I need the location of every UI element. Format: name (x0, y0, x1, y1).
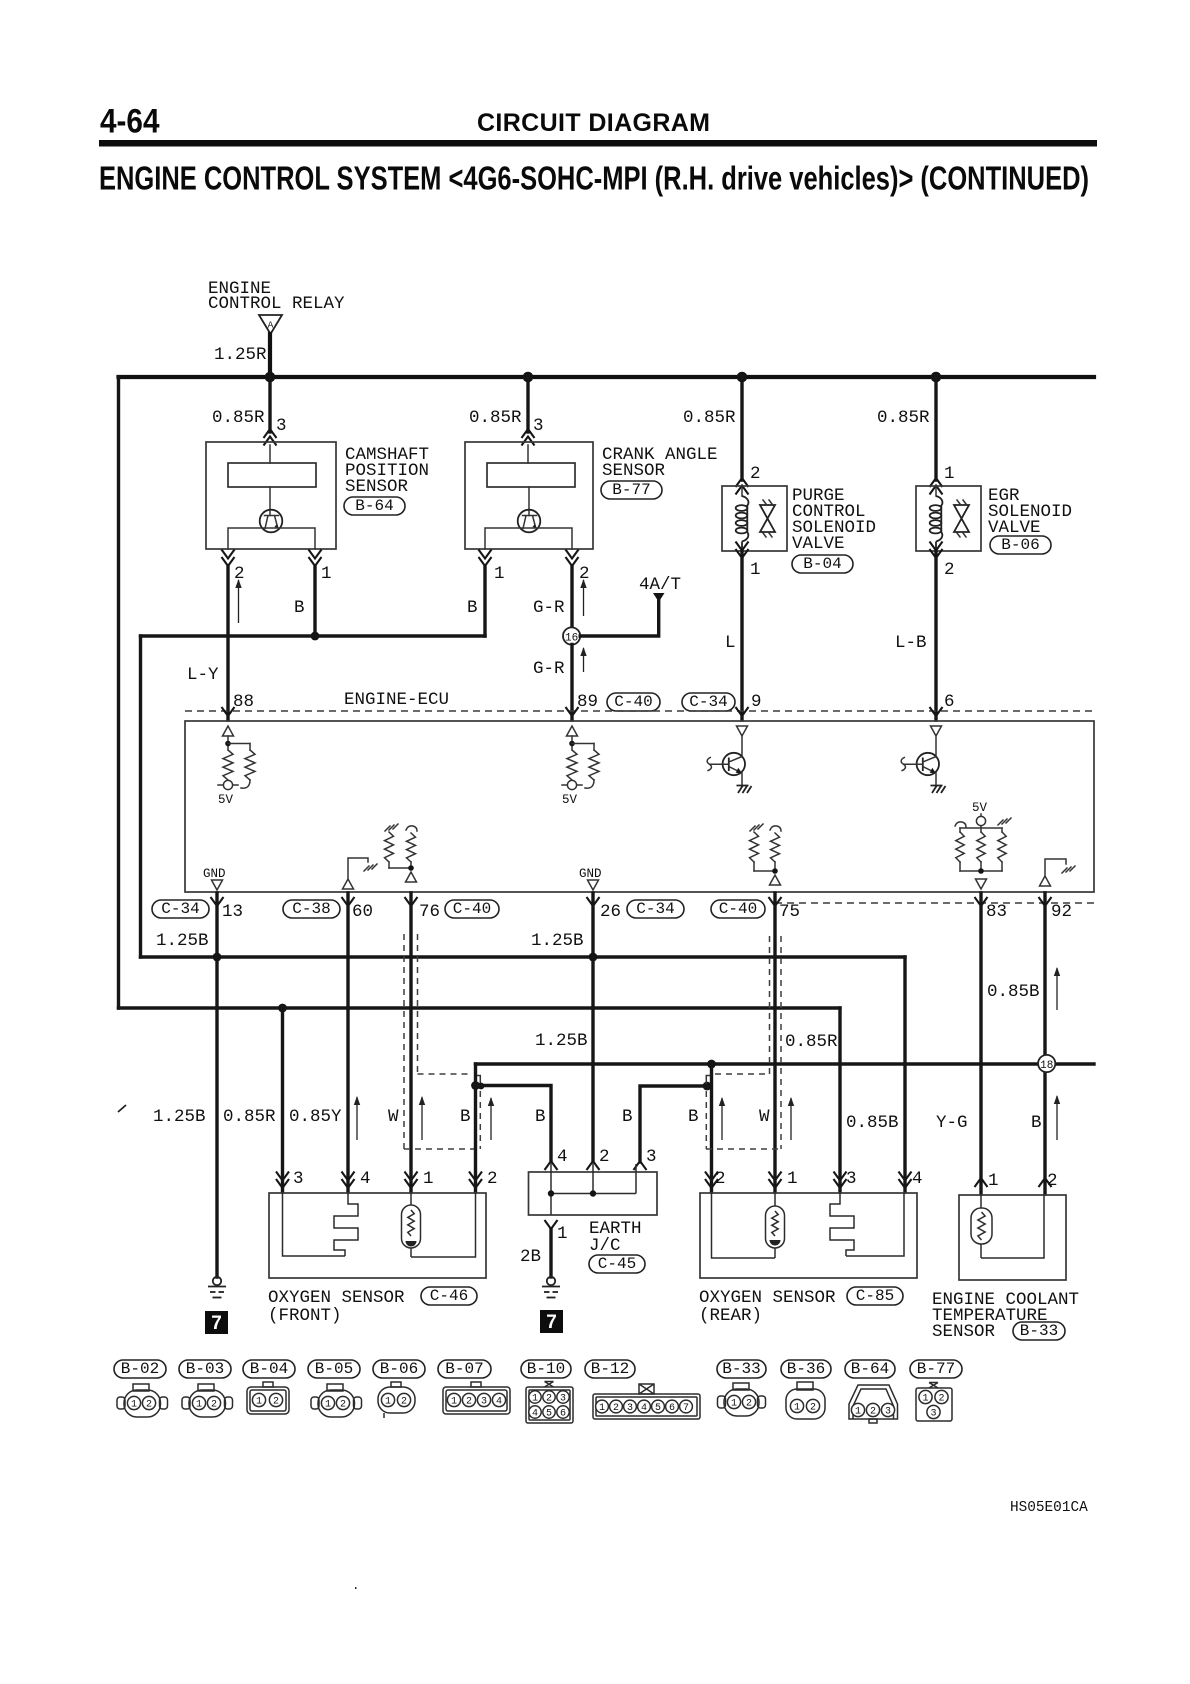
svg-text:2: 2 (944, 560, 955, 580)
earth JC box C-45 (529, 1172, 658, 1215)
connector B-77 drawing (916, 1388, 952, 1421)
ECU pin88 pull-up network (227, 736, 229, 750)
svg-text:26: 26 (600, 902, 621, 922)
transistor Q1 driver pin9 (741, 736, 743, 757)
line1 right riser to rear O2 pin4 (903, 957, 906, 1192)
svg-text:6: 6 (560, 1409, 566, 1420)
svg-text:2: 2 (487, 1169, 498, 1189)
svg-text:W: W (759, 1107, 770, 1127)
svg-text:B: B (460, 1107, 471, 1127)
rear O2 heater element (830, 1193, 854, 1256)
camshaft position sensor box B-64 (206, 442, 336, 549)
connector bubble C-46 (421, 1287, 477, 1305)
svg-text:1: 1 (787, 1169, 798, 1189)
junction dot front branch (471, 1081, 480, 1090)
ECU pin6 output marker (931, 726, 942, 736)
svg-text:3: 3 (885, 1407, 891, 1418)
EGR valve symbol (954, 505, 969, 532)
svg-text:0.85Y: 0.85Y (289, 1107, 342, 1127)
svg-text:2: 2 (211, 1400, 217, 1411)
svg-text:6: 6 (669, 1403, 675, 1414)
svg-text:89: 89 (577, 692, 598, 712)
svg-text:OXYGEN SENSOR: OXYGEN SENSOR (268, 1288, 405, 1308)
connector bubble B-64 (344, 497, 405, 515)
svg-text:B-77: B-77 (612, 481, 650, 499)
svg-text:B-64: B-64 (851, 1360, 889, 1378)
chevrons rear O2 pin3 (834, 1179, 847, 1188)
junction dot rear branch (703, 1082, 712, 1091)
svg-text:G-R: G-R (533, 659, 565, 679)
connector bubble C-45 (589, 1255, 645, 1273)
line2 right riser to rear O2 pin3 (838, 1008, 841, 1192)
ECU pin89 pull-up network (571, 736, 573, 750)
svg-text:1.25R: 1.25R (214, 345, 267, 365)
chevron earth JC pin3 (634, 1161, 647, 1170)
crank angle sensor box B-77 (465, 442, 593, 549)
camshaft sensor internal wiring (228, 528, 315, 549)
chevrons rear O2 pin2 (705, 1179, 718, 1188)
junction dot line2 front O2 feed (278, 1004, 287, 1013)
svg-text:5: 5 (655, 1403, 661, 1414)
svg-text:C-85: C-85 (856, 1287, 894, 1305)
svg-text:C-45: C-45 (598, 1255, 636, 1273)
connector bubble C-40 pin76 (445, 900, 499, 918)
wire L purge to ECU 9 (740, 551, 743, 720)
arrow B rear wire (721, 1098, 723, 1140)
chevrons camshaft pin 2 (222, 557, 235, 566)
ECU top dashed connector line (185, 710, 1094, 712)
svg-text:C-34: C-34 (636, 900, 674, 918)
svg-text:B: B (535, 1107, 546, 1127)
svg-text:Y-G: Y-G (936, 1113, 968, 1133)
chevron earth JC pin2 (587, 1161, 600, 1170)
svg-text:B-04: B-04 (250, 1360, 288, 1378)
ground line 1 horizontal (141, 955, 906, 958)
connector bubble B-04 (792, 555, 853, 573)
rear oxygen sensor box C-85 (700, 1193, 917, 1278)
chevron ECU pin26 (587, 897, 600, 906)
connector B-33 drawing (718, 1396, 726, 1408)
tick mark left margin (118, 1105, 126, 1112)
svg-text:W: W (388, 1107, 399, 1127)
svg-text:1.25B: 1.25B (535, 1031, 588, 1051)
connector bubble C-38 pin60 (283, 900, 340, 918)
svg-text:B-04: B-04 (803, 555, 841, 573)
EGR valve box B-06 (916, 486, 981, 551)
svg-text:9: 9 (751, 692, 762, 712)
svg-text:1.25B: 1.25B (531, 931, 584, 951)
svg-text:B-77: B-77 (917, 1360, 955, 1378)
svg-text:C-40: C-40 (614, 693, 652, 711)
chevrons crank feed (522, 429, 535, 438)
wire L-B egr to ECU 6 (934, 551, 937, 720)
svg-text:1: 1 (325, 1400, 331, 1411)
connector bubble B-05 (308, 1360, 360, 1378)
svg-text:7: 7 (546, 1312, 557, 1333)
svg-text:VALVE: VALVE (988, 518, 1041, 538)
ECU internal ground elbow pin60 (348, 858, 368, 878)
chevrons rear O2 pin1 (769, 1179, 782, 1188)
chevrons front O2 pin4 (342, 1179, 355, 1188)
svg-text:1: 1 (855, 1407, 861, 1418)
svg-text:2: 2 (1047, 1171, 1058, 1191)
wire 1.25R relay stem (268, 334, 272, 377)
connector B-64 drawing (849, 1385, 898, 1419)
chevron coolant pin2 (1039, 1178, 1052, 1187)
ECU internal ground elbow pin92 (1045, 859, 1066, 876)
svg-text:0.85R: 0.85R (212, 408, 265, 428)
chevrons camshaft pin 1 (309, 557, 322, 566)
front O2 sensor element (410, 1193, 412, 1205)
svg-text:2: 2 (579, 564, 590, 584)
wire B crank pin1 (483, 566, 486, 636)
ENGINE-ECU box (185, 721, 1094, 892)
svg-text:1: 1 (557, 1224, 568, 1244)
left bus wire down (117, 377, 120, 1008)
svg-text:7: 7 (683, 1403, 689, 1414)
wire B horizontal run (141, 634, 486, 637)
svg-text:SENSOR: SENSOR (932, 1322, 996, 1342)
svg-text:3: 3 (293, 1169, 304, 1189)
connector bubble C-34 pin13 (152, 900, 209, 918)
svg-text:CIRCUIT DIAGRAM: CIRCUIT DIAGRAM (477, 109, 710, 137)
chevrons camshaft feed (264, 429, 277, 438)
connector bubble B-03 (179, 1360, 231, 1378)
wire into camshaft sensor (269, 445, 271, 463)
svg-text:1: 1 (196, 1400, 202, 1411)
svg-text:L: L (725, 633, 736, 653)
connector B-06 drawing (378, 1387, 415, 1413)
svg-text:0.85B: 0.85B (987, 982, 1040, 1002)
svg-text:L-Y: L-Y (187, 665, 219, 685)
svg-text:2: 2 (599, 1147, 610, 1167)
left riser of B run (139, 636, 142, 957)
chevron ECU pin92 (1039, 897, 1052, 906)
svg-text:VALVE: VALVE (792, 534, 845, 554)
arrow on L-Y wire (238, 580, 240, 623)
connector B-04 drawing (247, 1387, 289, 1414)
arrow B coolant wire (1056, 1096, 1058, 1140)
junction dot EGR feed (931, 372, 942, 383)
svg-text:1: 1 (988, 1171, 999, 1191)
svg-text:.: . (352, 1579, 360, 1593)
wire B pin92 down to coolant sensor (1043, 893, 1046, 1194)
svg-text:B-07: B-07 (445, 1360, 483, 1378)
svg-text:B-33: B-33 (722, 1360, 760, 1378)
front O2 pin3 internal wire (283, 1193, 346, 1256)
wire 0.85R crank feed (526, 377, 529, 432)
wire 0.85R front O2 heater feed (281, 1008, 284, 1192)
arrow pin92 upper (1056, 968, 1058, 1010)
junction dot camshaft feed (265, 372, 276, 383)
svg-text:0.85R: 0.85R (683, 408, 736, 428)
main supply bus (119, 375, 1095, 379)
svg-text:C-34: C-34 (689, 693, 727, 711)
connector bubble C-85 (847, 1287, 903, 1305)
svg-text:0.85R: 0.85R (223, 1107, 276, 1127)
svg-text:3: 3 (930, 1409, 936, 1420)
svg-text:1: 1 (451, 1397, 457, 1408)
ECU pin89 input marker (567, 726, 578, 736)
crank sensor pickup circle (528, 487, 530, 516)
svg-text:1.25B: 1.25B (153, 1107, 206, 1127)
chevrons purge feed (736, 478, 749, 487)
purge valve symbol (760, 505, 775, 532)
chevrons front O2 pin1 (405, 1179, 418, 1188)
relay terminal triangle A (259, 315, 282, 334)
rear branch wire to rear O2 pin2 (710, 1064, 713, 1192)
junction dot B wire (311, 632, 320, 641)
svg-text:4-64: 4-64 (100, 103, 160, 141)
wire into crank sensor (527, 445, 529, 463)
ground line 3 horizontal 1.25B (476, 1062, 1095, 1065)
connector B-36 drawing (786, 1389, 825, 1419)
svg-text:CONTROL RELAY: CONTROL RELAY (208, 294, 345, 314)
svg-text:3: 3 (627, 1403, 633, 1414)
svg-text:1: 1 (321, 564, 332, 584)
svg-text:2: 2 (870, 1407, 876, 1418)
svg-text:B-06: B-06 (1001, 536, 1039, 554)
svg-text:2: 2 (146, 1400, 152, 1411)
wire L-Y camshaft pin2 to ECU 88 (226, 566, 229, 720)
svg-text:B-02: B-02 (121, 1360, 159, 1378)
chevrons crank pin 1 (479, 557, 492, 566)
svg-text:3: 3 (560, 1394, 566, 1405)
svg-text:1: 1 (750, 560, 761, 580)
svg-text:0.85R: 0.85R (785, 1032, 838, 1052)
svg-text:B-36: B-36 (787, 1360, 825, 1378)
chevron ECU pin75 (769, 897, 782, 906)
chevron ECU pin76 (405, 897, 418, 906)
ground symbol left 1.25B (213, 1277, 221, 1285)
svg-text:1: 1 (131, 1400, 137, 1411)
svg-text:2: 2 (340, 1400, 346, 1411)
svg-text:C-34: C-34 (161, 900, 199, 918)
chevrons crank pin 2 (566, 557, 579, 566)
svg-text:2: 2 (401, 1397, 407, 1408)
wire Y-G pin83 down to coolant sensor (979, 893, 982, 1194)
svg-text:3: 3 (646, 1147, 657, 1167)
wire pin76 down to front O2 pin1 (409, 893, 412, 1192)
chevrons purge pin 1 (736, 549, 749, 558)
chevrons egr pin 2 (930, 549, 943, 558)
svg-text:C-46: C-46 (430, 1287, 468, 1305)
chevron earth JC pin4 (545, 1161, 558, 1170)
svg-text:A: A (268, 320, 274, 331)
svg-text:4: 4 (557, 1147, 568, 1167)
svg-text:0.85R: 0.85R (469, 408, 522, 428)
purge solenoid coil (741, 486, 743, 496)
svg-text:B: B (294, 598, 305, 618)
svg-text:HS05E01CA: HS05E01CA (1010, 1500, 1088, 1516)
svg-text:SENSOR: SENSOR (602, 461, 666, 481)
wire G-R crank pin2 upper (570, 566, 573, 627)
svg-text:4: 4 (912, 1169, 923, 1189)
svg-text:2B: 2B (520, 1247, 541, 1267)
svg-text:B-06: B-06 (380, 1360, 418, 1378)
rear O2 sensor element (774, 1193, 776, 1206)
svg-text:92: 92 (1051, 902, 1072, 922)
EGR solenoid coil (935, 486, 937, 496)
4A/T branch wire (580, 601, 659, 636)
connector bubble C-34 pin26 (627, 900, 684, 918)
svg-text:B-12: B-12 (591, 1360, 629, 1378)
earth JC ground wire (549, 1229, 552, 1277)
transistor Q2 driver pin6 (935, 736, 937, 757)
svg-text:4: 4 (641, 1403, 647, 1414)
svg-text:0.85B: 0.85B (846, 1113, 899, 1133)
wire pin60 down to front O2 pin4 (346, 893, 349, 1192)
svg-text:B-05: B-05 (315, 1360, 353, 1378)
svg-text:4: 4 (360, 1169, 371, 1189)
svg-text:ENGINE-ECU: ENGINE-ECU (344, 690, 449, 710)
svg-text:G-R: G-R (533, 598, 565, 618)
connector B-12 drawing (593, 1394, 700, 1419)
chevron ECU pin60 (342, 897, 355, 906)
shield dashed channel rear O2 (769, 936, 771, 1074)
svg-text:7: 7 (211, 1313, 222, 1334)
svg-text:1: 1 (532, 1394, 538, 1405)
front O2 pin2 internal wire (411, 1193, 476, 1257)
chevrons egr feed (930, 478, 943, 487)
connector bubble B-36 (781, 1360, 831, 1378)
svg-text:B-64: B-64 (355, 497, 393, 515)
connector B-05 drawing (311, 1397, 319, 1409)
svg-text:2: 2 (938, 1394, 944, 1405)
svg-text:1: 1 (423, 1169, 434, 1189)
junction dot crank feed (523, 372, 534, 383)
svg-text:4: 4 (496, 1397, 502, 1408)
svg-text:ENGINE CONTROL SYSTEM <4G6-SOH: ENGINE CONTROL SYSTEM <4G6-SOHC-MPI (R.H… (99, 160, 1089, 197)
svg-text:1: 1 (599, 1403, 605, 1414)
chevrons rear O2 pin4 (899, 1179, 912, 1188)
svg-text:OXYGEN SENSOR: OXYGEN SENSOR (699, 1288, 836, 1308)
ground symbol earth JC (547, 1277, 555, 1285)
ECU resistor pair pin75 (750, 824, 763, 831)
svg-text:2: 2 (613, 1403, 619, 1414)
ECU resistor pair pin76 (385, 824, 398, 831)
chevron coolant pin1 (975, 1178, 988, 1187)
earth point 7 marker right (540, 1310, 563, 1333)
front O2 heater element (334, 1193, 358, 1256)
rear O2 pin2 internal wire (712, 1193, 776, 1258)
coolant internal wire (981, 1195, 1044, 1258)
chevron earth JC pin1 (545, 1220, 558, 1229)
junction dot line3 rear branch (707, 1060, 716, 1069)
wire 1.25B pin13 down (215, 893, 218, 1277)
svg-text:2: 2 (546, 1394, 552, 1405)
svg-text:1: 1 (256, 1397, 262, 1408)
svg-text:76: 76 (419, 902, 440, 922)
svg-text:L-B: L-B (895, 633, 927, 653)
svg-text:GND: GND (579, 867, 602, 881)
connector bubble B-02 (114, 1360, 166, 1378)
svg-text:B: B (622, 1107, 633, 1127)
arrow W rear wire (790, 1098, 792, 1140)
chevron ECU pin83 (975, 897, 988, 906)
arrow B front wire (490, 1098, 492, 1140)
chevron ECU pin 89 (566, 707, 579, 716)
svg-text:2: 2 (746, 1399, 752, 1410)
chevron ECU pin13 (211, 897, 224, 906)
svg-text:2: 2 (466, 1397, 472, 1408)
svg-text:1: 1 (731, 1399, 737, 1410)
connector bubble B-33 gallery (717, 1360, 766, 1378)
svg-text:B: B (1031, 1113, 1042, 1133)
wire 0.85R purge feed (740, 377, 743, 480)
svg-text:1: 1 (385, 1397, 391, 1408)
connector bubble B-10 (521, 1360, 571, 1378)
svg-text:(REAR): (REAR) (699, 1306, 762, 1326)
wire B camshaft pin1 (313, 566, 316, 636)
earth point 7 marker left (205, 1311, 228, 1334)
header rule (99, 140, 1097, 147)
svg-text:1: 1 (922, 1394, 928, 1405)
svg-text:16: 16 (565, 633, 578, 645)
arrow G-R upper (583, 580, 585, 616)
svg-text:6: 6 (944, 692, 955, 712)
svg-text:75: 75 (779, 902, 800, 922)
chevron ECU pin 6 (930, 707, 943, 716)
connector bubble B-77 (601, 481, 662, 499)
wire 0.85R camshaft feed (268, 377, 271, 432)
crank sensor inner element (487, 463, 575, 487)
svg-text:3: 3 (481, 1397, 487, 1408)
camshaft sensor inner element (228, 463, 316, 487)
svg-text:2: 2 (750, 464, 761, 484)
camshaft sensor pickup circle (269, 487, 271, 516)
svg-text:2: 2 (715, 1169, 726, 1189)
svg-text:4A/T: 4A/T (639, 575, 681, 595)
branch to earth JC pin3 (640, 1086, 707, 1162)
junction circle 16 (563, 627, 580, 644)
connector bubble B-07 (438, 1360, 491, 1378)
connector B-03 drawing (182, 1397, 190, 1409)
connector bubble B-12 (585, 1360, 635, 1378)
junction dot line1 pin13 (213, 953, 222, 962)
connector bubble C-40 top (607, 693, 660, 711)
svg-text:B: B (467, 598, 478, 618)
shield drain dot front (478, 1083, 485, 1090)
chevrons front O2 pin3 (276, 1179, 289, 1188)
purge valve box B-04 (722, 486, 787, 551)
earth JC internal bus (550, 1164, 552, 1215)
chevron ECU pin 88 (222, 707, 235, 716)
chevrons front O2 pin2 (469, 1179, 482, 1188)
rear O2 pin4 internal wire (846, 1193, 904, 1256)
svg-text:1: 1 (494, 564, 505, 584)
svg-text:13: 13 (222, 902, 243, 922)
crank sensor internal wiring (485, 528, 572, 549)
connector bubble C-34 top (682, 693, 735, 711)
connector bubble B-06 (373, 1360, 425, 1378)
supply line 2 horizontal (119, 1006, 841, 1009)
connector B-02 drawing (117, 1397, 125, 1409)
svg-text:88: 88 (233, 692, 254, 712)
junction dot purge feed (737, 372, 748, 383)
ECU pin9 output marker (737, 726, 748, 736)
wire G-R to ECU 89 (570, 645, 573, 721)
wire 0.85R egr feed (934, 377, 937, 480)
coolant thermistor element (980, 1195, 982, 1208)
svg-text:B: B (688, 1107, 699, 1127)
svg-text:60: 60 (352, 902, 373, 922)
chevron ECU pin 9 (736, 707, 749, 716)
4A/T terminal triangle (653, 593, 665, 602)
svg-text:1: 1 (944, 464, 955, 484)
ECU pin88 input marker (223, 726, 234, 736)
connector B-10 drawing (526, 1387, 573, 1423)
